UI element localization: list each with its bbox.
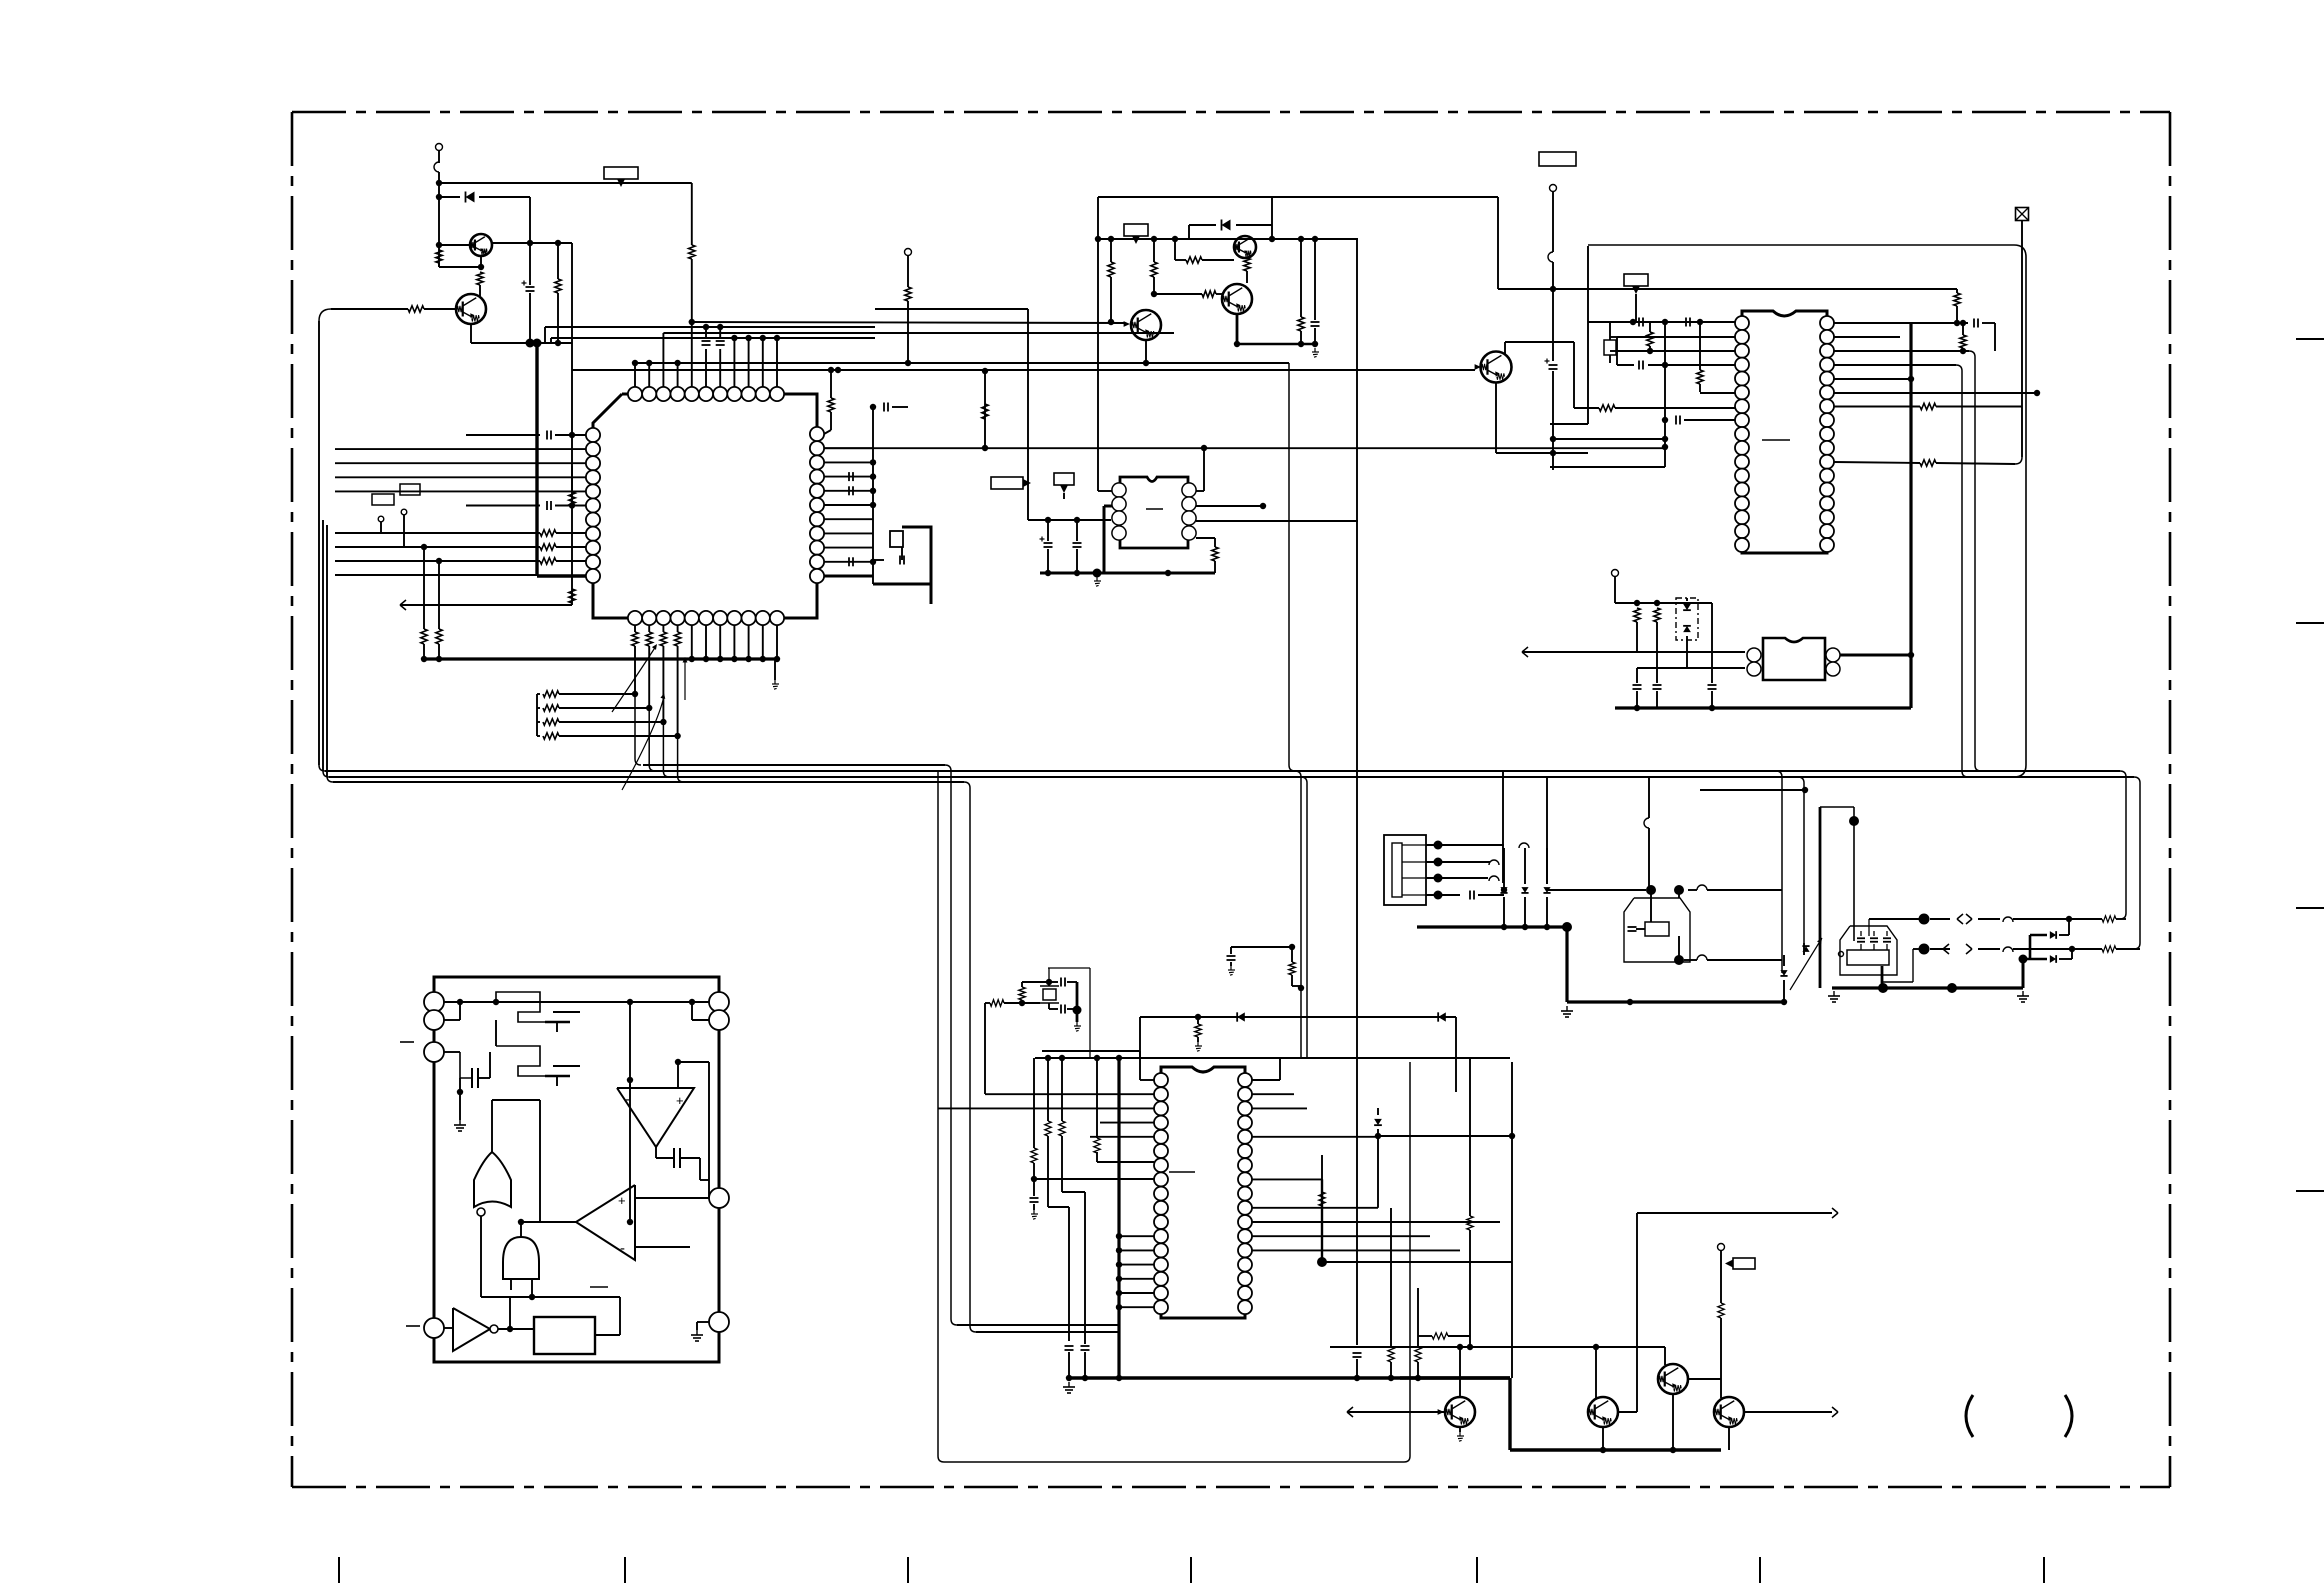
svg-text:-: - bbox=[625, 1091, 630, 1108]
svg-text:-: - bbox=[620, 1240, 625, 1257]
svg-text:+: + bbox=[618, 1193, 626, 1208]
svg-text:+: + bbox=[676, 1093, 684, 1108]
